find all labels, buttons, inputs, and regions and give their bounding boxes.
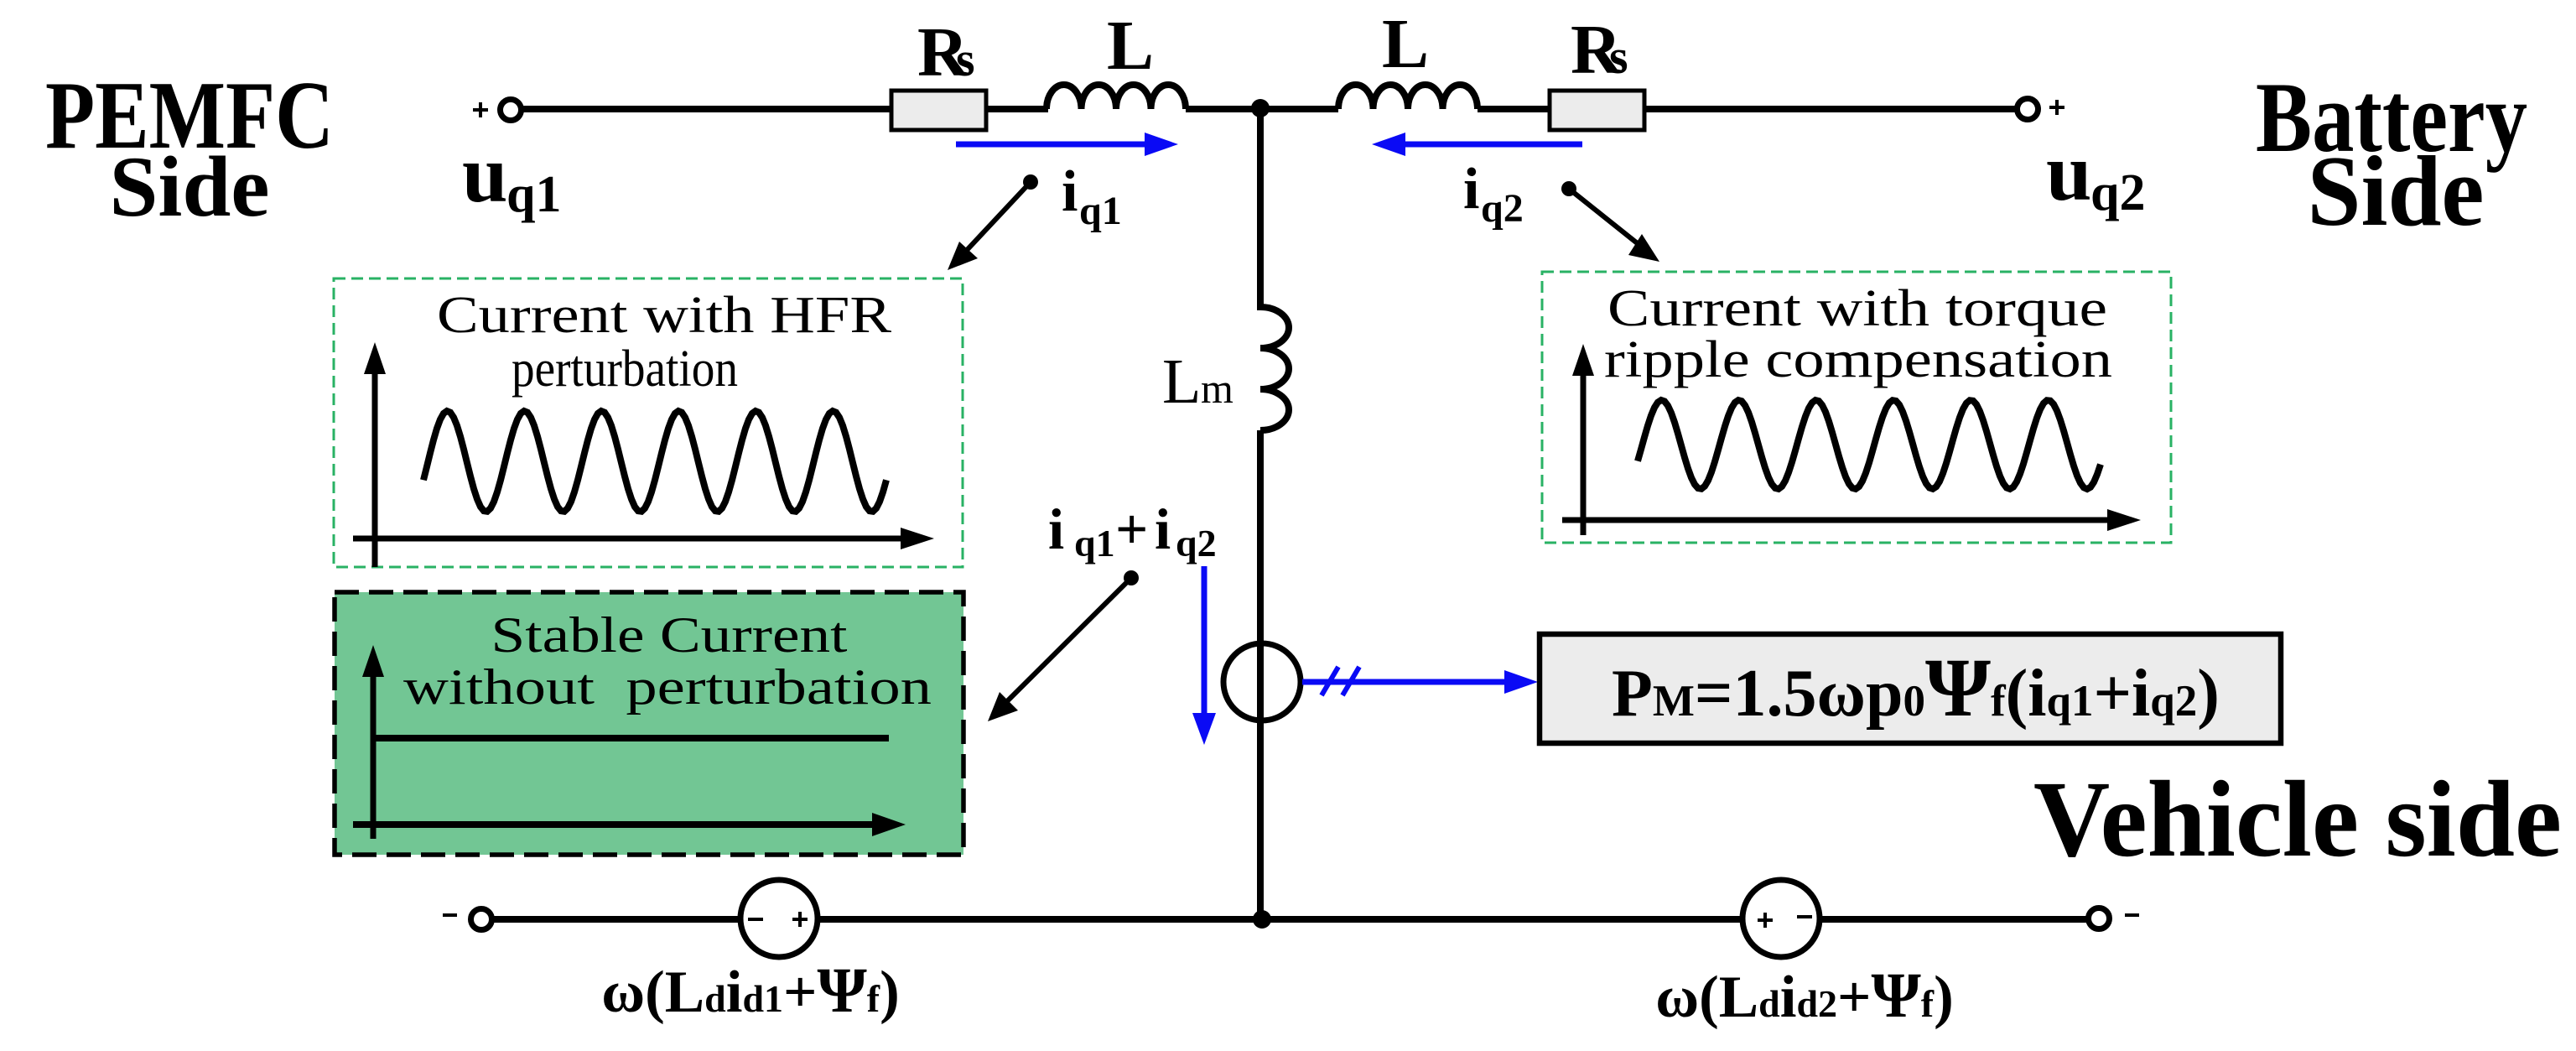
svg-text:q2: q2 [1176,522,1217,565]
callout arrow iq1+iq2 to green box [988,578,1131,721]
svg-text:q2: q2 [1481,186,1524,231]
svg-text:u: u [2046,127,2092,218]
inductor L (PEMFC side) [1046,85,1186,109]
stable current level line [376,735,889,741]
svg-text:perturbation: perturbation [512,341,738,398]
wire: left terminal to Rs [521,106,894,112]
HFR graph x-axis [353,536,904,542]
resistor Rs (PEMFC side) [891,91,986,130]
svg-text:Side: Side [110,139,270,235]
wire: Rs to right terminal [1644,106,2018,112]
svg-text:q1: q1 [1074,522,1115,565]
svg-text:s: s [1609,29,1628,84]
node dot at iq1+iq2 [1124,570,1139,585]
wire: terminal to source w(Ld id1 + Psi f) [492,916,743,923]
svg-text:Current with HFR: Current with HFR [437,287,892,344]
wire: Rs to L [986,106,1048,112]
label Lm [1162,346,1233,417]
resistor Rs (battery side) [1550,91,1644,130]
label iq1 [1062,159,1122,233]
svg-text:m: m [1201,365,1233,412]
node A (top junction dot) [1251,99,1270,117]
current arrow iq1 (blue) [956,133,1178,156]
bottom rail: minus terminal (PEMFC) [443,909,492,930]
svg-text:s: s [956,32,975,86]
wire: Lm to bottom node [1257,430,1264,919]
stable graph x-axis [353,821,874,828]
current source (motor EMF source) [1223,643,1301,721]
label iq2 [1463,157,1524,231]
voltage source w(Ld id2 + Psi f) [1742,880,1820,957]
wire: source to bottom node [818,916,1745,923]
terminal + (PEMFC) [473,100,522,121]
stable graph y-axis [371,671,377,839]
green box: Stable Current without perturbation [335,592,963,855]
svg-text:Vehicle side: Vehicle side [2033,759,2562,880]
current arrow iq2 (blue) [1372,133,1582,156]
inductor Lm (vertical) [1260,307,1289,430]
inductor L (battery side) [1338,85,1478,109]
dashed box: Current with torque ripple compensation [1542,272,2171,543]
terminal + (Battery) [2018,99,2065,120]
torque ripple waveform [1638,400,2101,489]
svg-text:i: i [1155,497,1171,561]
svg-text:L: L [1382,5,1429,83]
svg-text:u: u [462,129,508,220]
svg-text:Side: Side [2308,135,2485,247]
svg-text:q1: q1 [506,166,561,223]
wire: node A down to Lm [1257,108,1264,310]
svg-text:without perturbation: without perturbation [403,659,932,715]
svg-text:q1: q1 [1079,189,1122,233]
svg-text:+: + [1115,497,1148,561]
HFR ripple waveform [423,411,886,512]
box PM formula [1540,634,2281,743]
torque graph x-axis [1562,518,2111,523]
svg-text:L: L [1107,7,1154,85]
label Rs (right) [1571,11,1628,89]
svg-text:i: i [1062,159,1078,224]
bottom rail: minus terminal (Battery) [2089,908,2140,929]
callout arrow iq2 to torque box [1569,189,1659,262]
label Rs (left) [917,13,975,91]
wire: source to right minus terminal [1820,916,2089,923]
svg-text:i: i [1463,157,1479,221]
callout arrow iq1 to HFR box [948,182,1031,270]
power flow arrow (blue) to PM box [1302,667,1538,695]
label iq1+iq2 [1048,497,1217,565]
svg-text:L: L [1162,346,1201,417]
svg-text:Stable Current: Stable Current [491,607,848,663]
label uq2 [2046,127,2145,221]
torque graph y-axis [1581,371,1587,535]
wire: L to node A [1186,106,1338,112]
node dot at iq2 [1561,181,1576,196]
HFR graph y-axis [372,369,378,567]
label Battery Side [2256,61,2527,247]
current arrow iq1+iq2 (blue, down) [1192,566,1216,745]
svg-text:ripple compensation: ripple compensation [1604,331,2112,388]
voltage source w(Ld id1 + Psi f) [740,880,818,957]
svg-text:q2: q2 [2090,164,2145,221]
label uq1 [462,129,561,223]
label PEMFC Side [45,62,334,235]
svg-text:i: i [1048,497,1064,561]
dashed box: Current with HFR perturbation [334,278,963,567]
svg-text:Current with torque: Current with torque [1607,280,2107,337]
node B (bottom junction dot) [1253,910,1271,929]
wire: L to Rs (battery side) [1478,106,1552,112]
node dot at iq1 [1023,174,1038,190]
